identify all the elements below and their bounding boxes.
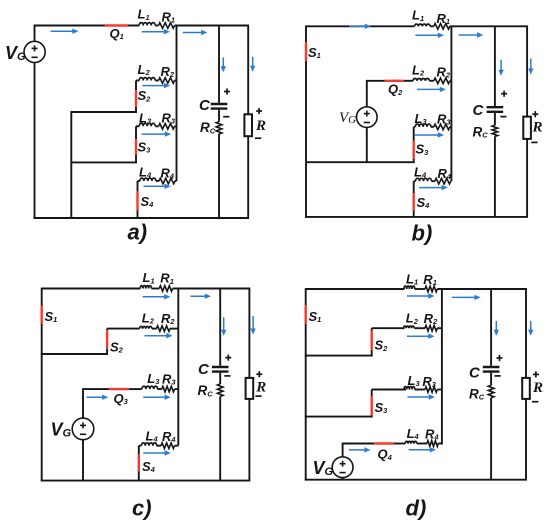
wire L1-R1 gap (a) <box>155 25 158 27</box>
label L4 (b) <box>414 165 427 180</box>
wire branch-4 drop (c) <box>138 446 140 455</box>
node arrow after R1 (b) <box>459 32 484 37</box>
wire branch-3 drop (a) <box>135 126 137 139</box>
label Q3 (c) <box>114 391 129 406</box>
current arrow through L1 (c) <box>143 294 171 299</box>
label Q4 (d) <box>378 447 393 462</box>
svg-text:C: C <box>198 361 210 378</box>
wire L3-R3 gap (d) <box>415 389 425 391</box>
inductor L1 (d) <box>404 286 415 289</box>
wire S2 to step (c) <box>106 349 108 355</box>
wire L4-R4 gap (b) <box>432 180 435 182</box>
wire right edge (c) <box>248 289 250 481</box>
capacitor C (a) <box>211 104 228 109</box>
wire branch-2 left (c) <box>107 328 139 330</box>
wire left edge top (a) <box>34 25 36 42</box>
current arrow branch 3 (c) <box>143 395 171 400</box>
wire L3-R3 gap (a) <box>155 125 158 127</box>
wire L1-R1 gap (c) <box>152 288 160 290</box>
resistor R1 (b) <box>434 24 450 30</box>
inductor L3 (c) <box>142 386 158 389</box>
label L4 (d) <box>407 426 420 441</box>
wire left edge bottom (a) <box>34 62 36 218</box>
label C (d) <box>469 365 481 382</box>
wire Rc to bottom (a) <box>218 134 220 218</box>
voltage source VG (a) <box>24 41 45 62</box>
inductor L2 (d) <box>404 326 415 328</box>
wire S2 to step (d) <box>371 350 373 356</box>
resistor R4 (b) <box>435 178 451 184</box>
svg-text:R: R <box>532 120 543 136</box>
wire R4 up to bus (b) <box>450 180 453 182</box>
label R4 (b) <box>438 166 452 181</box>
label S3 (d) <box>375 400 389 415</box>
node arrow after R1 (d) <box>452 295 481 300</box>
label - of R (a) <box>255 137 261 139</box>
label - of R (d) <box>532 401 538 403</box>
wire bottom rail (d) <box>305 479 527 481</box>
resistor R2 (c) <box>157 326 171 332</box>
wire left edge below S1 (d) <box>305 324 307 481</box>
wire output bus (d) <box>441 289 443 444</box>
wire Q2 to L2 (b) <box>404 80 413 82</box>
wire step-2 (d) <box>305 416 373 418</box>
label L2 (c) <box>142 310 155 325</box>
label R4 (c) <box>162 429 176 444</box>
wire branch-3 left (c) <box>83 388 109 390</box>
label L3 (a) <box>139 110 152 125</box>
wire R3 to bus (d) <box>437 389 442 391</box>
wire C to Rc (b) <box>494 113 496 125</box>
label L2 (b) <box>412 63 425 78</box>
resistor Rc (a) <box>216 122 222 134</box>
label S1 (b) <box>308 45 321 60</box>
svg-text:c): c) <box>132 496 152 521</box>
label - of C (d) <box>495 375 501 377</box>
label S1 (d) <box>309 309 322 324</box>
current arrow into load branch (d) <box>528 321 533 336</box>
wire top rail right segment (a) <box>175 25 250 27</box>
inductor L2 (a) <box>139 78 155 81</box>
current arrow into load branch (a) <box>250 57 255 72</box>
wire output bus (a) <box>176 26 178 182</box>
wire L2-R2 gap (b) <box>430 80 434 82</box>
inductor L4 (c) <box>142 443 157 446</box>
wire step-2 (a) <box>70 161 136 163</box>
label Rc (c) <box>198 383 214 398</box>
label - of R (c) <box>255 395 261 397</box>
current arrow branch 2 (d) <box>407 334 435 339</box>
label - of C (c) <box>224 375 230 377</box>
switch S2 (red, open) (a) <box>135 90 137 107</box>
wire VG to bottom rail (c) <box>82 440 84 481</box>
wire branch-3 drop (b) <box>413 127 415 141</box>
voltage source VG (d) <box>332 457 353 478</box>
wire Q4 to L4 (d) <box>394 443 405 445</box>
svg-text:C: C <box>473 102 485 119</box>
resistor R2 (a) <box>159 78 175 84</box>
node arrow after R1 (c) <box>190 294 211 299</box>
resistor R4 (c) <box>161 443 175 449</box>
label L3 (c) <box>147 371 160 386</box>
wire top rail left segment (d) <box>306 288 405 290</box>
current arrow into Q1 (a) <box>51 29 79 34</box>
label R (b) <box>532 120 543 136</box>
wire S3 to step (a) <box>135 155 137 164</box>
label + of C (d) <box>497 355 503 361</box>
current arrow into capacitor branch (c) <box>221 317 226 336</box>
resistor R4 (d) <box>427 441 438 447</box>
wire S2 to step (a) <box>135 107 137 113</box>
label + of R (d) <box>533 371 539 377</box>
label + of C (a) <box>224 88 230 94</box>
wire L1-R1 gap (b) <box>430 25 434 27</box>
wire left edge above S1 (c) <box>41 288 43 306</box>
svg-text:d): d) <box>406 496 427 521</box>
wire R3 to bus (b) <box>450 126 452 128</box>
wire branch-2 left (b) <box>367 80 385 82</box>
wire left edge above S1 (d) <box>305 288 307 305</box>
wire branch-4 left (b) <box>414 180 416 182</box>
wire R2 to bus (a) <box>175 80 177 82</box>
label R (c) <box>255 380 266 396</box>
current arrow into Q3 (c) <box>87 395 109 400</box>
current arrow through L1 (d) <box>407 293 435 298</box>
inductor L1 (a) <box>139 23 155 26</box>
current arrow branch 4 (a) <box>144 184 171 189</box>
current arrow branch 3 (a) <box>142 131 172 136</box>
label + of R (b) <box>532 111 538 117</box>
resistor R3 (b) <box>434 124 450 130</box>
wire S4 to bottom rail (c) <box>138 471 140 480</box>
wire C to Rc (d) <box>490 373 492 386</box>
wire branch-3 left (b) <box>414 126 416 128</box>
load resistor R (d) <box>522 378 530 399</box>
load resistor R (a) <box>244 114 252 136</box>
label R1 (b) <box>437 11 451 26</box>
wire return step (b) <box>306 161 415 163</box>
voltage source VG (c) <box>72 418 94 440</box>
wire R4 to bus (d) <box>438 443 443 445</box>
wire capacitor branch top (b) <box>494 26 496 106</box>
current arrow branch 3 (d) <box>408 394 436 399</box>
label VG (d) <box>313 458 334 478</box>
label R2 (c) <box>161 311 175 326</box>
label VG (a) <box>5 43 26 63</box>
switch S1 (red, open) (d) <box>305 305 307 324</box>
resistor R2 (b) <box>434 78 450 84</box>
resistor R2 (d) <box>425 325 437 331</box>
wire branch-3 left (a) <box>136 125 139 127</box>
resistor R3 (d) <box>425 387 437 393</box>
inductor L1 (b) <box>415 24 431 26</box>
label S3 (a) <box>138 139 152 154</box>
wire capacitor branch top (d) <box>490 289 492 366</box>
label S1 (c) <box>45 309 58 324</box>
label + of C (b) <box>501 91 507 97</box>
resistor Rc (b) <box>492 125 498 136</box>
switch S4 (red, open) (c) <box>138 455 140 472</box>
wire VG to bottom rail (d) <box>342 478 344 480</box>
wire top rail right segment (c) <box>173 288 251 290</box>
svg-text:R: R <box>255 380 266 396</box>
switch S3 (red, open) (d) <box>371 396 373 416</box>
svg-text:a): a) <box>128 220 148 245</box>
label L1 (c) <box>143 270 155 285</box>
label R4 (a) <box>161 166 175 181</box>
wire capacitor branch top (c) <box>219 289 221 366</box>
wire S3 to return (b) <box>413 159 415 163</box>
inductor L1 (c) <box>140 286 151 289</box>
label + of R (c) <box>256 371 262 377</box>
current arrow branch 4 (d) <box>409 447 436 452</box>
wire top rail right segment (b) <box>450 25 528 27</box>
caption c) <box>132 496 152 521</box>
wire step-1 (a) <box>70 111 136 113</box>
label L1 (b) <box>412 8 424 23</box>
label S2 (d) <box>375 338 389 353</box>
wire top rail left segment (b) <box>306 25 415 27</box>
wire Rc to bottom (c) <box>219 396 221 480</box>
wire return vertical (a) <box>70 112 72 218</box>
label L4 (c) <box>146 429 159 444</box>
wire VG to branch-2 (b) <box>366 80 368 107</box>
wire R2 to bus (d) <box>437 327 442 329</box>
wire R4 to bus (c) <box>175 445 179 447</box>
current arrow branch 2 (c) <box>145 333 173 338</box>
current arrow through L1 (a) <box>142 29 170 34</box>
label - of C (a) <box>223 116 229 118</box>
switch S2 (red, open) (d) <box>371 331 373 351</box>
label S2 (a) <box>138 88 152 103</box>
wire L4-R4 gap (a) <box>156 180 159 182</box>
label S4 (a) <box>141 194 155 209</box>
wire left edge above S1 (b) <box>305 25 307 42</box>
wire capacitor branch top (a) <box>218 26 220 103</box>
label S3 (b) <box>416 142 430 157</box>
voltage source VG (b) <box>357 107 378 128</box>
wire branch-3 left (d) <box>372 389 406 391</box>
wire L2-R2 gap (d) <box>414 327 425 329</box>
switch S4 (red, open) (b) <box>413 193 415 211</box>
wire top rail right segment (d) <box>437 288 527 290</box>
caption a) <box>128 220 148 245</box>
wire R3 to bus (c) <box>175 388 179 390</box>
caption d) <box>406 496 427 521</box>
node arrow after R1 (a) <box>183 30 208 35</box>
resistor R3 (a) <box>159 124 175 130</box>
wire L2-R2 gap (a) <box>155 80 158 82</box>
wire left edge below S1 (b) <box>305 61 307 218</box>
label R3 (d) <box>422 374 436 389</box>
wire branch-2 drop (d) <box>371 328 373 330</box>
label C (c) <box>198 361 210 378</box>
resistor Rc (c) <box>217 384 223 396</box>
wire L2-R2 gap (c) <box>152 328 157 330</box>
wire R2 to bus (b) <box>450 80 452 82</box>
wire Rc to bottom (b) <box>494 136 496 217</box>
resistor R1 (a) <box>159 23 175 29</box>
label R1 (c) <box>160 271 174 286</box>
wire VG to branch-3 (c) <box>82 388 84 418</box>
wire VG to branch-4 (d) <box>342 443 344 457</box>
label R1 (a) <box>162 9 176 24</box>
current arrow branch 4 (b) <box>419 185 448 190</box>
wire branch-4 left (c) <box>139 445 141 447</box>
wire R2 to bus (c) <box>170 328 178 330</box>
wire L4-R4 gap (d) <box>417 443 427 445</box>
switch Q2 (red, closed) (b) <box>385 80 404 82</box>
wire S4 to bottom rail (a) <box>137 210 139 218</box>
label C (b) <box>473 102 485 119</box>
current arrow branch 2 (b) <box>417 87 446 92</box>
label R1 (d) <box>423 272 437 287</box>
current arrow on top rail (b) <box>349 24 371 29</box>
current arrow branch 2 (a) <box>142 83 170 88</box>
svg-text:C: C <box>469 365 481 382</box>
inductor L4 (d) <box>405 441 417 443</box>
wire L1-R1 gap (d) <box>415 288 425 290</box>
label Rc (d) <box>469 387 485 402</box>
label S4 (b) <box>417 195 431 210</box>
current arrow through L1 (b) <box>415 33 444 38</box>
wire bottom rail (c) <box>41 480 250 482</box>
current arrow branch 4 (c) <box>143 450 171 455</box>
label + of R (a) <box>256 108 262 114</box>
label L2 (a) <box>138 62 151 77</box>
switch S2 (red, open) (c) <box>106 330 108 349</box>
label C (a) <box>199 97 211 114</box>
wire L3-R3 gap (b) <box>431 126 434 128</box>
label VG (b) <box>339 110 356 126</box>
wire branch-2 drop (a) <box>135 81 137 91</box>
current arrow into capacitor branch (b) <box>498 60 503 76</box>
wire L3-R3 gap (c) <box>157 388 161 390</box>
inductor L3 (d) <box>404 386 415 389</box>
current arrow into load branch (b) <box>528 59 533 75</box>
label Rc (b) <box>473 124 489 139</box>
label L3 (b) <box>415 111 428 126</box>
caption b) <box>412 221 433 246</box>
switch Q4 (red, closed) (d) <box>374 442 394 444</box>
current arrow into capacitor branch (a) <box>221 57 226 72</box>
wire branch-2 left (a) <box>136 80 139 82</box>
label - of C (b) <box>500 116 506 118</box>
wire top rail left segment (c) <box>42 288 141 290</box>
switch S4 (red, open) (a) <box>136 191 138 210</box>
label S4 (c) <box>142 459 156 474</box>
label R4 (d) <box>425 426 439 441</box>
wire step-1 (c) <box>41 353 108 355</box>
label L1 (a) <box>138 7 150 22</box>
inductor L2 (b) <box>413 79 429 81</box>
label R3 (b) <box>437 111 451 126</box>
resistor R3 (c) <box>162 386 175 392</box>
label R (d) <box>532 380 543 396</box>
svg-text:R: R <box>532 380 543 396</box>
wire S3 to step (d) <box>371 416 373 418</box>
load resistor R (b) <box>523 117 531 139</box>
current arrow branch 3 (b) <box>415 132 444 137</box>
wire C to Rc (c) <box>219 373 221 384</box>
wire branch-4 left (a) <box>138 180 140 182</box>
label Q2 (b) <box>388 82 403 97</box>
wire branch-4 drop (b) <box>413 181 415 193</box>
wire output bus (c) <box>177 289 179 446</box>
label L4 (a) <box>139 165 152 180</box>
label R (a) <box>255 118 266 134</box>
wire bottom rail (b) <box>305 216 528 218</box>
svg-text:b): b) <box>412 221 433 246</box>
wire branch-2 drop (c) <box>106 329 108 331</box>
label + of C (c) <box>225 355 231 361</box>
current arrow into load branch (c) <box>250 316 255 335</box>
load resistor R (c) <box>246 378 254 399</box>
capacitor C (c) <box>212 367 229 372</box>
wire C to Rc (a) <box>218 110 220 122</box>
wire L4-R4 gap (c) <box>157 445 162 447</box>
label - of R (b) <box>531 141 537 143</box>
wire right edge (d) <box>525 289 527 480</box>
wire VG to return (b) <box>366 127 368 162</box>
label L1 (d) <box>406 271 418 286</box>
switch S3 (red, open) (a) <box>135 139 137 154</box>
inductor L3 (a) <box>139 123 155 126</box>
label R3 (a) <box>162 111 176 126</box>
svg-text:R: R <box>255 118 266 134</box>
capacitor C (d) <box>483 367 500 372</box>
wire branch-4 left (d) <box>343 443 375 445</box>
label Rc (a) <box>200 120 216 135</box>
wire branch-2 left (d) <box>372 327 405 329</box>
wire right edge (b) <box>526 26 528 217</box>
wire left edge below S1 (c) <box>41 324 43 481</box>
switch S1 (red, open) (c) <box>41 306 43 325</box>
wire right edge (a) <box>247 26 249 219</box>
wire step-1 (d) <box>305 355 373 357</box>
wire branch-4 drop (a) <box>137 181 139 191</box>
label R3 (c) <box>162 371 176 386</box>
resistor Rc (d) <box>488 385 494 397</box>
wire output bus (b) <box>450 26 452 181</box>
current arrow into Q4 (d) <box>349 447 371 452</box>
resistor R1 (c) <box>159 286 172 292</box>
inductor L4 (b) <box>416 178 432 181</box>
wire bottom rail (a) <box>34 217 249 219</box>
label S2 (c) <box>110 340 124 355</box>
switch S1 (red, open) (b) <box>305 42 307 61</box>
label Q1 (a) <box>110 26 124 41</box>
inductor L2 (c) <box>140 326 152 328</box>
capacitor C (b) <box>487 107 504 112</box>
svg-text:C: C <box>199 97 211 114</box>
inductor L4 (a) <box>140 178 156 181</box>
switch S3 (red, open) (b) <box>413 141 415 160</box>
inductor L3 (b) <box>415 124 431 127</box>
wire top rail left segment (a) <box>35 25 140 27</box>
label R2 (d) <box>424 311 438 326</box>
wire S4 to bottom rail (b) <box>413 211 415 217</box>
label R2 (b) <box>437 64 451 79</box>
resistor R1 (d) <box>425 286 437 292</box>
wire Rc to bottom (d) <box>490 398 492 480</box>
wire Q3 to L3 (c) <box>129 388 142 390</box>
label R2 (a) <box>161 64 175 79</box>
label L3 (d) <box>408 373 421 388</box>
wire R4 to bus (a) <box>175 180 177 182</box>
wire branch-3 drop (d) <box>371 390 373 397</box>
resistor R4 (a) <box>159 178 175 184</box>
